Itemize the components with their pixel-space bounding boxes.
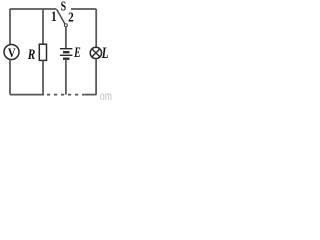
svg-text:1: 1: [51, 9, 57, 24]
svg-text:E: E: [73, 44, 80, 61]
svg-text:L: L: [101, 44, 109, 61]
resistor R: [39, 44, 46, 60]
switch S pivot: [64, 24, 67, 27]
wire lamp to bottom: [95, 59, 97, 95]
wire battery to bottom: [65, 60, 67, 95]
wire bottom right solid: [85, 94, 97, 96]
svg-text:R: R: [27, 47, 36, 62]
battery E plate thick 1: [63, 51, 70, 53]
svg-text:om: om: [100, 87, 112, 100]
wire voltmeter to bottom: [9, 59, 11, 94]
switch S blade: [57, 9, 65, 24]
wire bottom dashed: [47, 94, 85, 96]
wire top left segment: [10, 8, 56, 10]
svg-text:V: V: [8, 46, 16, 60]
battery E plate long top: [60, 48, 73, 50]
battery E plate long 2: [60, 54, 73, 56]
wire top right segment: [71, 8, 96, 10]
voltmeter V: [4, 45, 19, 60]
wire resistor top branch: [42, 9, 44, 44]
battery E plate thick 2: [63, 58, 70, 60]
wire switch pivot to battery: [65, 27, 67, 48]
svg-text:S: S: [61, 0, 67, 14]
svg-text:2: 2: [68, 9, 74, 24]
wire right vertical: [95, 9, 97, 47]
wire bottom solid left: [10, 94, 44, 96]
lamp L: [90, 47, 101, 58]
wire resistor bottom branch: [42, 60, 44, 94]
wire left vertical: [9, 9, 11, 45]
